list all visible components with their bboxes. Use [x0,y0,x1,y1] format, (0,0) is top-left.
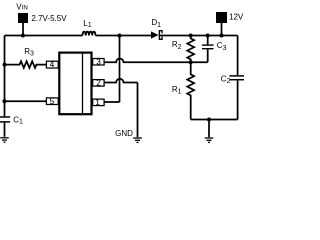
svg-text:C3: C3 [217,41,227,52]
terminal 12V (output) [216,12,227,36]
wire: GND vertical drop from pin 2 wire [137,83,139,138]
capacitor C1 [0,117,10,137]
svg-text:5: 5 [50,97,55,106]
wire: bottom output return wire from R1 to right rail [191,119,238,121]
svg-text:3: 3 [96,57,101,66]
wire: pin 1 (SW) to switch node vertical [105,101,120,103]
node: VIN junction dot [21,34,25,38]
IC U1 body (SOT-23-5 regulator outline) [59,53,91,115]
ground: C1 earth symbol [0,138,9,142]
pin 1 [93,98,104,107]
terminal VIN (input) [18,13,28,36]
capacitor C2 [229,76,244,80]
wire: right rail from C2 bottom plate down to bottom corner [237,80,239,119]
svg-text:12V: 12V [229,12,244,21]
wire: left rail to pin 5 [5,100,47,102]
wire: top rail from D1 cathode to top-right corner [160,35,238,37]
node: FB node junction dot [189,60,193,64]
node: R3 junction dot on left rail [3,63,7,67]
node: R2 top junction dot on top rail [189,34,193,38]
wire: ground drop from bottom wire [208,120,210,138]
wire: pin 3 feedback wire with crossover hop to FB node [105,59,208,63]
node: 12V terminal junction dot on top rail [220,34,224,38]
svg-text:2: 2 [96,79,101,88]
diode D1 (Schottky) [151,30,162,40]
svg-text:R2: R2 [172,40,182,51]
svg-text:1: 1 [95,98,100,107]
ground: output earth symbol [205,138,214,142]
svg-text:D1: D1 [151,18,161,29]
svg-text:C2: C2 [221,74,231,85]
wire: top rail from left corner to L1 [5,35,83,37]
wire: right rail from top corner down to C2 top plate [237,36,239,76]
node: switch node junction dot on top rail [118,34,122,38]
resistor R3 [5,61,47,68]
capacitor C3 [202,36,214,63]
svg-text:C1: C1 [13,115,23,125]
node: output ground junction dot on bottom wire [207,118,211,122]
svg-text:2.7V-5.5V: 2.7V-5.5V [31,14,67,23]
svg-text:R1: R1 [172,85,182,96]
wire: left rail vertical from top corner down to C1 [4,36,6,117]
pin 3 [93,57,104,66]
node: C3 top junction dot on top rail [206,34,210,38]
svg-text:4: 4 [50,60,55,69]
pin 2 [93,79,104,88]
inductor L1 [83,32,96,36]
wire: top rail from L1 to D1 anode [96,35,152,37]
wire: switch node vertical from top rail down to pin 1 [119,36,121,103]
svg-text:GND: GND [115,129,133,138]
resistor R2 [187,36,194,63]
node: pin 5 junction dot on left rail [3,99,7,103]
svg-text:VIN: VIN [16,2,28,11]
wire: pin 2 wire with crossover hop to GND drop [105,79,138,83]
svg-text:L1: L1 [83,19,91,29]
pin 5 [46,97,58,106]
ground: GND pin earth symbol [133,138,142,142]
pin 4 [46,60,58,69]
resistor R1 [187,62,194,119]
svg-text:R3: R3 [24,47,34,58]
